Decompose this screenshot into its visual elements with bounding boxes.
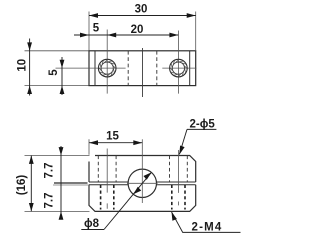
hole H1 outer circle phi5 [98, 59, 116, 77]
hole H2 front center line [177, 150, 179, 205]
label 2-phi5: arrow [179, 146, 184, 155]
slit bottom face left segment [89, 184, 128, 186]
hole H1 front center line [106, 149, 108, 209]
dimension 7.7 pair: line [60, 146, 62, 219]
label 2-M4: arrow [172, 212, 177, 221]
label 2-phi5: underline [187, 128, 216, 130]
hole H2 inner circle M4 [172, 62, 184, 74]
dimension 15: right arrow [133, 140, 142, 145]
hidden line phi5 hole2 left [169, 156, 171, 183]
phi8 bore circle [128, 169, 156, 197]
svg-text:5: 5 [93, 22, 100, 34]
holes horizontal center line left segment [56, 67, 126, 69]
svg-text:7.7: 7.7 [44, 163, 56, 179]
dimension 30: line [89, 15, 196, 17]
hidden line phi5 hole1 right [115, 156, 117, 183]
hole H1 inner circle M4 [101, 62, 113, 74]
slit top face left segment [89, 181, 128, 183]
svg-text:7.7: 7.7 [44, 193, 56, 209]
hole H1 center line vertical [106, 30, 108, 94]
dimension 15: extension line left [88, 139, 90, 155]
svg-text:ϕ8: ϕ8 [84, 218, 100, 230]
dimension 30: right arrow [187, 13, 196, 18]
dimension 15: left arrow [89, 140, 98, 145]
top edge extension (left, for 16 dim) [25, 155, 90, 157]
chamfer edge line left [94, 51, 96, 86]
dimension 10: bottom arrow pointing up [27, 86, 32, 94]
svg-text:2-M4: 2-M4 [192, 221, 223, 233]
dimension 30: extension line right [195, 12, 197, 51]
bottom edge extension (left, for 16 dim) [25, 210, 90, 212]
dimension 5 vertical: upper arrow pointing down [60, 60, 65, 68]
hole H2 thread hatch ticks [184, 69, 187, 73]
svg-text:30: 30 [135, 4, 148, 16]
label phi8: SW arrow inside bore [133, 187, 141, 194]
phi8 bore horizontal center line [127, 182, 158, 184]
hidden line phi8 bore left [127, 51, 129, 86]
slit bottom face left extension [53, 184, 89, 186]
dimension 5 (vertical, left of top view): line [61, 57, 63, 95]
svg-text:5: 5 [48, 69, 60, 76]
dimension (16): bottom arrow pointing down [29, 203, 34, 211]
dimension 10: top arrow pointing down [27, 42, 32, 50]
dimension 5/20: line with tail [74, 34, 178, 36]
dimension 5: left outside arrow pointing right [80, 33, 89, 38]
label phi8: leader line through bore [81, 229, 104, 231]
label phi8: diagonal leader [104, 172, 151, 229]
hidden line M4 hole1 right (thick) [113, 185, 115, 210]
top view body outline [89, 51, 196, 86]
hole H2 center line vertical [177, 31, 179, 94]
slit bottom face right segment [156, 184, 196, 186]
dimension (16): top arrow pointing up [29, 156, 34, 164]
phi8 bore vertical center line [141, 139, 143, 203]
dimension 30: extension line left [88, 12, 90, 51]
dimension 5/20 middle arrow pointing left [107, 33, 116, 38]
label phi8: NE arrow inside bore [143, 172, 151, 179]
svg-text:15: 15 [106, 131, 119, 143]
hidden line M4 hole2 right (thick) [184, 185, 186, 210]
hidden line M4 hole1 left (thick) [100, 185, 102, 210]
hole H1 thread hatch ticks [113, 69, 116, 73]
label 2-phi5: leader line [179, 129, 187, 154]
svg-text:(16): (16) [16, 175, 28, 196]
dimension 7.7 upper: top arrow pointing down [59, 147, 64, 155]
top edge extension line (left, for 10 dim) [25, 50, 90, 52]
hidden line phi5 hole2 right [186, 156, 188, 183]
dimension (16): line [30, 156, 32, 212]
vertical center line of part (between views) [142, 48, 144, 97]
bottom edge extension line (left, for 10 dim) [25, 85, 90, 87]
svg-text:2-ϕ5: 2-ϕ5 [190, 119, 216, 131]
dimension 15: line [89, 142, 142, 144]
chamfer edge line right [189, 51, 191, 86]
dimension 10: line [29, 39, 31, 96]
hidden line phi5 hole1 left [97, 156, 99, 183]
svg-text:20: 20 [131, 24, 144, 36]
front view outline with chamfers and slit gaps [89, 156, 196, 212]
dimension 30: left arrow [89, 13, 98, 18]
slit top face left extension [54, 182, 88, 184]
dimension 5 vertical: lower arrow pointing up [60, 86, 65, 94]
svg-text:10: 10 [17, 59, 29, 72]
holes horizontal center line right segment [162, 67, 196, 69]
label 2-M4: leader line [172, 212, 241, 233]
dimension 20: right arrow pointing right [169, 33, 178, 38]
slit top face right segment [156, 181, 196, 183]
hole H2 outer circle phi5 [170, 59, 188, 77]
dimension 7.7 lower: bottom arrow pointing up [59, 211, 64, 219]
hidden line M4 hole2 left (thick) [171, 185, 173, 210]
hidden line phi8 bore right [156, 51, 158, 86]
